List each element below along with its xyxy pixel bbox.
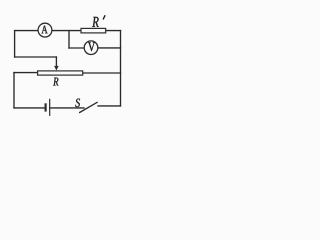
wire left vertical lower	[13, 73, 15, 108]
voltmeter V	[84, 41, 98, 55]
rheostat wiper arrowhead	[54, 66, 59, 71]
wire right vertical	[120, 31, 122, 106]
label S	[75, 99, 80, 107]
wire switch right horizontal	[98, 105, 121, 107]
wire bottom-left to battery	[14, 107, 46, 109]
wire V branch left vertical	[68, 31, 70, 48]
rheostat R	[38, 71, 83, 75]
wire V branch left horizontal	[69, 47, 84, 49]
label R' : R	[92, 17, 99, 27]
wire A to R'	[52, 30, 81, 32]
wire battery to switch	[50, 107, 84, 109]
resistor R'	[81, 28, 106, 33]
wire R' right to corner	[106, 30, 121, 32]
label R	[53, 78, 58, 86]
wire top-left horizontal	[15, 30, 39, 32]
battery: short (negative) electrode	[44, 103, 46, 111]
label R' : prime	[103, 16, 105, 19]
wire rheostat left horizontal	[14, 72, 38, 74]
switch S blade	[80, 102, 98, 112]
ammeter A	[38, 23, 52, 37]
wire left vertical upper	[14, 31, 16, 57]
wire V branch right horizontal	[98, 47, 121, 49]
wire wiper horizontal	[15, 56, 57, 58]
background	[0, 0, 132, 120]
battery: long (positive) electrode	[49, 99, 51, 116]
wire rheostat right horizontal	[83, 72, 121, 74]
wire wiper vertical	[55, 57, 57, 67]
